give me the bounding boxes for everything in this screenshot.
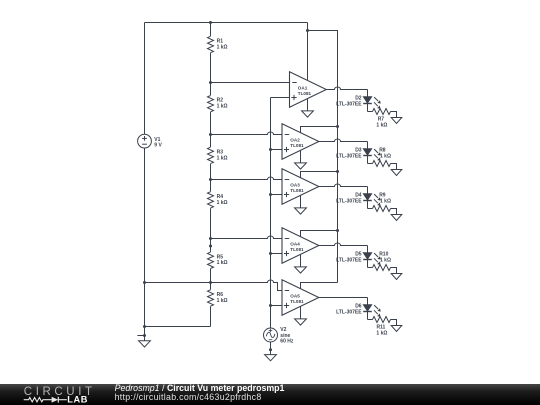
ground OA3 V- [295,208,307,214]
svg-text:1 kΩ: 1 kΩ [217,298,228,304]
node junction ground stub [143,334,146,337]
wire OA1 output [326,87,367,90]
svg-text:OA4: OA4 [290,241,300,246]
wire OA1 V+ lead [307,23,309,82]
svg-text:http://circuitlab.com/c463u2pf: http://circuitlab.com/c463u2pfrdhc8 [115,392,262,402]
wire R7 to ground [391,112,397,118]
resistor R4 [207,192,214,209]
wire OA3 V- lead [300,196,302,208]
ground R8 [391,170,402,176]
ground GND1 [139,341,151,347]
resistor R7 [373,109,391,115]
wire tap to OA1 inverting input [211,82,290,84]
svg-text:1 kΩ: 1 kΩ [217,44,228,50]
ground R7 [391,118,402,124]
svg-text:TL081: TL081 [290,143,304,148]
svg-text:1 kΩ: 1 kΩ [217,260,228,266]
wire ladder bottom return [145,326,211,328]
wire resistor ladder [210,23,212,327]
wire LED D3 cathode lead [367,156,369,164]
LED D4 LTL-307EE [363,194,381,206]
label R9 1 k&#937; [379,192,391,204]
svg-text:LTL-307EE: LTL-307EE [336,153,362,159]
svg-text:OA3: OA3 [290,182,300,187]
node junction OA2 non-inverting [269,148,272,151]
label V1 9 V [154,137,162,149]
svg-text:1 kΩ: 1 kΩ [217,200,228,206]
svg-text:OA1: OA1 [298,85,308,90]
wire R9 to ground [391,209,397,215]
svg-text:OA2: OA2 [290,137,300,142]
node junction V1 return tap [143,281,146,284]
wire non-inverting signal bus [270,98,272,329]
svg-text:1 kΩ: 1 kΩ [217,104,228,110]
voltage source V2 sine [264,328,278,342]
resistor R9 [373,206,391,212]
op-amp OA1 TL081 [290,72,327,108]
wire OA3 output [319,184,368,187]
svg-text:1 kΩ: 1 kΩ [376,123,387,129]
wire to OA4 non-inverting input [271,253,283,255]
wire V1 top lead [144,23,146,135]
label R6 1 k&#937; [217,292,228,304]
wire LED D5 cathode lead [367,260,369,268]
svg-text:1 kΩ: 1 kΩ [217,155,228,161]
svg-text:1 kΩ: 1 kΩ [380,153,391,159]
svg-text:1 kΩ: 1 kΩ [376,331,387,337]
wire R11 to ground [391,320,397,326]
wire supply bus [308,31,338,283]
node supply branch [306,29,309,32]
wire LED D2 anode lead [367,90,369,97]
label R4 1 k&#937; [217,194,228,206]
svg-text:LTL-307EE: LTL-307EE [336,101,362,107]
resistor R5 [207,252,214,269]
label R1 1 k&#937; [217,39,228,51]
wire tap to OA3 inverting input [211,177,283,180]
ground R9 [391,215,402,221]
wire R8 to ground [391,164,397,170]
label R5 1 k&#937; [217,254,228,266]
svg-text:OA5: OA5 [290,293,300,298]
svg-text:1 kΩ: 1 kΩ [380,198,391,204]
svg-text:9 V: 9 V [154,143,162,149]
wire OA4 V- lead [300,255,302,267]
wire tap to OA2 inverting input [211,132,283,135]
wire OA2 V+ tap [301,127,338,133]
label R7 1 k&#937; [376,117,387,129]
wire ground stub [137,335,144,337]
wire OA5 V+ tap [301,283,338,289]
label R8 1 k&#937; [379,147,391,159]
resistor R2 [207,95,214,112]
node junction OA2 V+ [336,125,339,128]
ground OA1 V- [302,111,314,117]
wire to OA2 non-inverting input [271,149,283,151]
node V2 ground junction [269,348,272,351]
svg-text:LAB: LAB [67,395,88,405]
wire OA3 V+ tap [301,172,338,178]
wire OA4 V+ tap [301,231,338,237]
LED D6 LTL-307EE [363,305,381,317]
node junction ladder-return [143,325,146,328]
node ladder top [209,21,212,24]
node junction OA3 V+ [336,170,339,173]
wire V2 bottom lead [270,342,272,355]
label V2 sine 60 Hz [280,327,294,345]
wire OA5 V- lead [300,307,302,319]
LED D5 LTL-307EE [363,253,381,265]
resistor R6 [207,290,214,307]
label R10 1 k&#937; [379,251,391,263]
node junction ladder tap5 [209,281,212,284]
node junction OA4 V+ [336,229,339,232]
svg-text:60 Hz: 60 Hz [280,339,294,345]
ground R11 [391,326,402,332]
wire OA4 output [319,243,368,246]
ground OA4 V- [295,267,307,273]
node stray junction [209,245,212,248]
node junction OA4 non-inverting [269,252,272,255]
wire OA1 V- lead [307,99,309,111]
wire to OA3 non-inverting input [271,194,283,196]
wire tap to OA4 inverting input [211,236,283,239]
label R2 1 k&#937; [217,98,228,110]
label R3 1 k&#937; [217,149,228,161]
ground OA5 V- [295,319,307,325]
ground OA2 V- [295,163,307,169]
resistor R3 [207,147,214,164]
svg-text:TL081: TL081 [290,247,304,252]
wire LED D4 anode lead [367,187,369,194]
svg-text:LTL-307EE: LTL-307EE [336,309,362,315]
voltage source V1 [138,134,152,148]
resistor R8 [373,161,391,167]
wire R10 to ground [391,268,397,274]
svg-text:LTL-307EE: LTL-307EE [336,198,362,204]
LED D3 LTL-307EE [363,149,381,161]
op-amp OA3 TL081 [282,169,319,205]
wire LED D4 cathode lead [367,201,369,209]
svg-text:TL081: TL081 [290,299,304,304]
wire LED D6 anode lead [367,298,369,305]
svg-text:1 kΩ: 1 kΩ [380,257,391,263]
wire OA5 output [319,297,368,299]
wire LED D3 anode lead [367,142,369,149]
resistor R1 [207,36,214,53]
wire top positive rail [145,22,308,24]
op-amp OA4 TL081 [282,228,319,264]
op-amp OA5 TL081 [282,280,319,316]
wire to OA5 non-inverting input [271,305,283,307]
wire V1 bottom lead [144,148,146,341]
label R11 1 k&#937; [376,325,387,337]
svg-text:LTL-307EE: LTL-307EE [336,257,362,263]
node junction OA5 non-inverting [269,304,272,307]
wire LED D5 anode lead [367,246,369,253]
wire OA1 non-inverting lead [271,97,290,99]
resistor R10 [373,265,391,271]
wire LED D2 cathode lead [367,104,369,112]
wire OA2 V- lead [300,151,302,163]
svg-text:TL081: TL081 [298,91,312,96]
wire LED D6 cathode lead [367,312,369,320]
node junction OA3 non-inverting [269,193,272,196]
wire tap to OA5 inverting input [145,280,283,291]
ground R10 [391,274,402,280]
resistor R11 [373,317,391,323]
CircuitLab logo [24,386,96,405]
svg-text:TL081: TL081 [290,188,304,193]
LED D2 LTL-307EE [363,97,381,109]
wire OA2 output [319,139,368,142]
op-amp OA2 TL081 [282,124,319,160]
ground V2 [265,355,277,361]
